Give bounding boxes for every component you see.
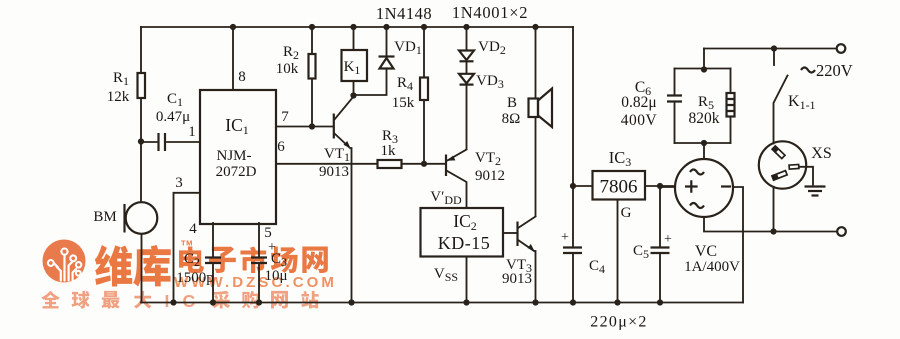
node: R2 bottom / pin7 / VT1 base — [309, 123, 315, 129]
wire: junction down to microphone — [140, 142, 142, 203]
watermark characters 电子市场网 — [179, 247, 328, 274]
svg-text:15k: 15k — [392, 95, 415, 111]
node: R4 bottom on base line — [421, 161, 427, 167]
svg-text:VT1: VT1 — [324, 146, 350, 164]
capacitor C3 — [251, 258, 267, 264]
svg-text:1A/400V: 1A/400V — [684, 259, 740, 275]
wire VD2-VD3 — [466, 61, 468, 74]
svg-text:K1-1: K1-1 — [788, 93, 816, 112]
node: VT3 emitter on ground rail — [532, 299, 538, 305]
node: IC3 input junction — [570, 183, 576, 189]
pin 7 wire — [276, 126, 333, 128]
bottom ground rail — [141, 302, 743, 304]
pin G wire — [617, 200, 619, 303]
node: junction R1/C1/BM — [138, 138, 144, 144]
wire: bridge plus to regulator — [660, 186, 675, 187]
svg-text:BM: BM — [93, 209, 116, 225]
watermark slogan row 全球最大IC采购网站 — [41, 291, 318, 309]
resistor R2 — [311, 27, 313, 54]
ground — [805, 185, 826, 187]
svg-text:1k: 1k — [381, 143, 397, 159]
speaker B — [535, 27, 537, 99]
wire: R1 to C1 tap — [140, 98, 142, 142]
wire: socket bottom to AC lower line — [773, 187, 775, 232]
wire: top rail corner down to IC3 column — [572, 27, 574, 186]
node: VT1 emitter on ground rail — [348, 299, 354, 305]
wire: top right feed — [704, 48, 836, 50]
svg-text:12k: 12k — [107, 89, 130, 105]
svg-text:R5: R5 — [698, 94, 714, 112]
pin 6 wire to R3 — [276, 163, 378, 165]
wire: speaker to VT3 collector — [535, 117, 537, 216]
pin 8 wire — [232, 27, 234, 90]
resistor R3 — [378, 160, 402, 168]
wire: snubber to bridge — [703, 143, 705, 159]
switch K1-1 — [773, 49, 775, 66]
svg-text:9013: 9013 — [319, 164, 349, 180]
svg-text:8: 8 — [238, 69, 246, 85]
svg-text:9012: 9012 — [475, 168, 505, 184]
svg-text:C2: C2 — [184, 251, 200, 269]
diode VD2 — [466, 27, 468, 50]
terminal: AC line bottom — [837, 227, 846, 236]
node: C3 on ground rail — [256, 299, 262, 305]
resistor R4 — [423, 27, 425, 78]
svg-text:C5: C5 — [633, 243, 649, 261]
wire: bridge minus down to ground rail — [733, 187, 743, 303]
XS slot middle right — [789, 164, 799, 169]
wire: R1 column top — [140, 27, 142, 73]
svg-text:+: + — [664, 232, 672, 247]
svg-text:C4: C4 — [589, 258, 605, 276]
transistor VT1 9013 — [333, 114, 335, 139]
svg-text:+: + — [561, 230, 569, 245]
svg-text:1500p: 1500p — [176, 270, 214, 286]
svg-text:VC: VC — [695, 243, 717, 260]
IC2 KD-15 — [421, 208, 504, 257]
svg-text:9013: 9013 — [502, 271, 532, 287]
diode VD3 — [459, 74, 474, 84]
svg-text:VSS: VSS — [434, 266, 458, 284]
wire: junction to 7806 — [573, 185, 593, 187]
resistor R1 — [138, 73, 146, 98]
svg-text:220V: 220V — [816, 61, 853, 80]
svg-text:1N4148: 1N4148 — [376, 4, 432, 23]
microphone BM — [126, 202, 158, 234]
svg-text:0.47μ: 0.47μ — [156, 109, 190, 125]
wire: feed down to snubber — [703, 49, 705, 69]
svg-text:C1: C1 — [167, 91, 183, 109]
svg-text:C3: C3 — [271, 251, 287, 269]
svg-text:KD-15: KD-15 — [438, 233, 491, 253]
relay coil K1 — [353, 27, 355, 50]
diode VD1 — [386, 27, 388, 56]
node: switch K1-1 top — [771, 45, 777, 51]
snubber frame top/bottom — [675, 69, 731, 144]
svg-text:V′DD: V′DD — [430, 189, 462, 207]
pin 3 wire — [174, 193, 201, 303]
svg-text:VT2: VT2 — [475, 150, 501, 168]
top supply rail — [141, 26, 573, 28]
terminal: AC line top — [837, 44, 846, 53]
svg-text:1N4001×2: 1N4001×2 — [452, 3, 528, 22]
wire VD3 to VT2 emitter — [466, 85, 468, 149]
svg-text:400V: 400V — [621, 112, 658, 129]
transistor VT2 9012 — [445, 155, 447, 177]
watermark logo circle — [43, 240, 86, 283]
svg-text:VD1: VD1 — [394, 39, 422, 57]
node: C5 on ground rail — [657, 299, 663, 305]
voltage regulator IC3 7806 — [593, 171, 646, 200]
pin 4 wire — [212, 223, 214, 257]
node: K1 bottom junction — [350, 92, 356, 98]
svg-text:R1: R1 — [113, 70, 129, 88]
svg-text:VD2: VD2 — [478, 39, 506, 57]
svg-text:TM: TM — [181, 239, 193, 248]
capacitor C5 — [659, 186, 661, 247]
wire: 7806 output — [645, 185, 675, 187]
bridge rectifier VC — [675, 159, 733, 217]
node: snubber bottom — [701, 140, 707, 146]
svg-text:220μ×2: 220μ×2 — [590, 314, 647, 331]
svg-text:0.82μ: 0.82μ — [621, 94, 656, 111]
svg-text:C: C — [183, 291, 196, 311]
svg-text:3: 3 — [175, 175, 183, 191]
capacitor C1 — [141, 141, 157, 143]
svg-text:7: 7 — [281, 109, 289, 125]
op-amp IC1 NJM-2072D — [200, 90, 276, 224]
resistor R5 — [730, 69, 732, 94]
capacitor C4 — [572, 186, 574, 247]
wire: socket to ground — [799, 167, 813, 185]
svg-text:4: 4 — [189, 221, 197, 237]
capacitor C6 — [674, 69, 676, 96]
capacitor C2 — [205, 258, 221, 264]
node: G on ground rail — [614, 299, 620, 305]
svg-text:2072D: 2072D — [216, 164, 257, 180]
wire: microphone to ground rail — [141, 234, 143, 303]
svg-text:820k: 820k — [689, 110, 720, 127]
node: C2 on ground rail — [210, 299, 216, 305]
node: pin8 on top rail — [230, 24, 236, 30]
svg-text:G: G — [621, 205, 632, 221]
svg-text:VD3: VD3 — [476, 73, 504, 91]
node: C4 on ground rail — [570, 299, 576, 305]
label ~220V — [801, 68, 815, 73]
node: pin3 on ground rail — [170, 299, 176, 305]
svg-text:IC2: IC2 — [453, 211, 477, 233]
svg-text:1: 1 — [188, 124, 196, 140]
node: VSS on ground rail — [463, 299, 469, 305]
node: socket on AC lower line — [770, 228, 776, 234]
svg-text:NJM-: NJM- — [216, 148, 251, 164]
socket XS — [759, 141, 806, 188]
watermark big characters 维库 — [95, 245, 171, 287]
wire: bridge bottom AC to lower line — [704, 217, 837, 232]
svg-text:R4: R4 — [397, 75, 413, 93]
svg-text:10μ: 10μ — [264, 268, 287, 284]
svg-text:6: 6 — [277, 139, 285, 155]
svg-text:I: I — [165, 291, 170, 311]
pin 5 wire — [258, 223, 260, 257]
svg-text:IC3: IC3 — [609, 148, 632, 169]
transistor VT3 9013 — [503, 232, 516, 234]
XS slot upper — [772, 146, 785, 159]
svg-text:7806: 7806 — [600, 177, 638, 198]
node: snubber top — [701, 66, 707, 72]
svg-text:10k: 10k — [276, 61, 299, 77]
svg-text:5: 5 — [264, 225, 272, 241]
svg-text:IC1: IC1 — [225, 115, 249, 137]
wire: IC2 VSS to ground rail — [466, 257, 468, 303]
XS slot lower — [772, 171, 787, 180]
svg-text:B: B — [507, 95, 517, 111]
svg-text:R2: R2 — [283, 44, 299, 62]
node: 7806 output / C5 — [657, 183, 663, 189]
svg-text:8Ω: 8Ω — [502, 111, 521, 127]
svg-text:XS: XS — [811, 145, 831, 162]
svg-text:K1: K1 — [344, 59, 361, 77]
